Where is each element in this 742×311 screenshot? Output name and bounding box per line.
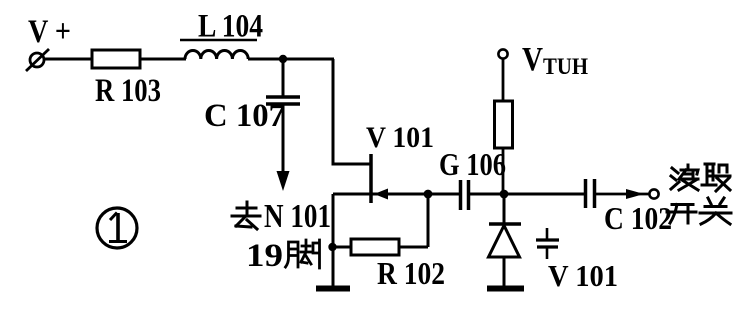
svg-text:R 102: R 102 — [377, 255, 445, 291]
node rail/R102 junction — [424, 190, 433, 199]
ground (left) — [316, 286, 350, 292]
node R102 left junction — [328, 243, 336, 251]
svg-text:V 101: V 101 — [548, 258, 618, 293]
arrow on output wire — [626, 189, 644, 199]
wire corner down — [333, 59, 371, 164]
ground (diode) — [487, 286, 524, 292]
wire G106 to C102 — [470, 193, 584, 196]
svg-text:V +: V + — [28, 14, 71, 50]
label 波段 (band) — [671, 164, 730, 191]
wire rail left leg down to ground — [332, 194, 335, 287]
wire C102 to output terminal — [596, 193, 649, 196]
terminal band switch — [649, 189, 658, 198]
inductor L104 — [185, 50, 248, 59]
node VTUH leg junction — [500, 190, 509, 199]
脚 — [286, 242, 299, 267]
wire VTUH down — [502, 59, 505, 101]
terminal VTUH — [498, 49, 507, 58]
label 开关 (switch) — [667, 198, 731, 224]
resistor R102 — [333, 246, 351, 249]
svg-text:V 101: V 101 — [366, 121, 434, 154]
label 去 N101 — [232, 202, 260, 229]
wire terminal to R103 — [44, 58, 92, 61]
svg-text:G 106: G 106 — [439, 146, 506, 182]
波 — [671, 168, 679, 189]
transistor V101 bar — [369, 154, 373, 203]
terminal V+ input — [26, 49, 49, 71]
svg-text:C 107: C 107 — [204, 98, 285, 134]
关 — [700, 198, 731, 224]
svg-text:R 103: R 103 — [95, 73, 161, 109]
wire resistor to rail — [502, 148, 505, 194]
capacitor C107 — [282, 59, 285, 97]
开 — [667, 205, 696, 224]
svg-text:N 101: N 101 — [264, 198, 331, 235]
svg-text:TUH: TUH — [543, 54, 588, 79]
svg-text:19: 19 — [246, 238, 283, 274]
varactor diode V101 — [503, 194, 506, 224]
resistor R103 — [92, 50, 140, 68]
emitter arrow on rail — [374, 189, 388, 200]
capacitor C102 — [584, 179, 588, 208]
wire R102 right leg up — [427, 194, 430, 247]
arrow to N101 pin 19 — [277, 171, 290, 191]
段 — [702, 164, 716, 185]
varicap symbol — [536, 228, 559, 259]
svg-text:V: V — [522, 41, 543, 78]
circled 1 figure number — [97, 208, 137, 248]
node junction at C107 tap — [279, 55, 287, 63]
wire R103 to L104 — [140, 58, 186, 61]
underline of L104 — [180, 39, 257, 42]
wire L104 to corner — [248, 58, 334, 61]
main rail wire — [333, 193, 459, 196]
svg-text:C 102: C 102 — [604, 200, 672, 236]
resistor (VTUH leg, vertical) — [495, 101, 513, 148]
capacitor G106 — [459, 180, 463, 210]
